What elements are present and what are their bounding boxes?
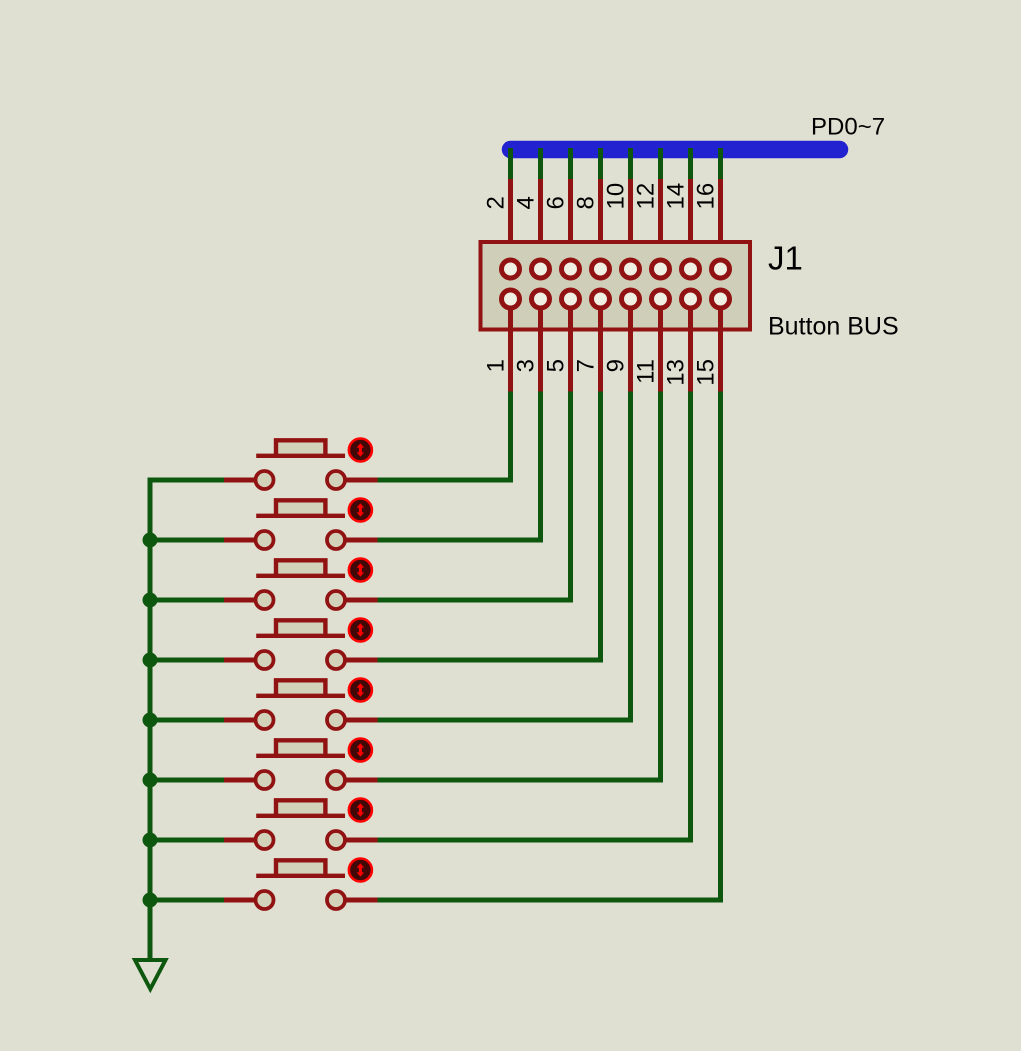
svg-text:12: 12 [633, 183, 660, 210]
push button 3 right pin [336, 598, 378, 603]
svg-text:16: 16 [693, 183, 720, 210]
wire bus entry to pin 4 [538, 148, 543, 179]
net label PD0~7 [811, 114, 885, 141]
push button 6 right pin [336, 778, 378, 783]
pin number 4 [513, 196, 540, 209]
svg-text:9: 9 [603, 359, 630, 372]
wire left rail vertical [148, 480, 153, 959]
svg-text:6: 6 [543, 196, 570, 209]
push button 8 cap [276, 860, 325, 876]
pin number 2 [483, 196, 510, 209]
svg-text:10: 10 [603, 183, 630, 210]
pin 7 wire (bottom) [598, 299, 603, 392]
push button 6 actuator [349, 739, 372, 762]
wire rail to button 4 [150, 658, 224, 663]
J1 pin 9 pad [622, 290, 640, 308]
pin 9 wire (bottom) [628, 299, 633, 392]
push button 5 left contact [256, 711, 274, 729]
J1 pin 12 pad [652, 260, 670, 278]
pin number 7 [573, 359, 600, 372]
push button 3 cap [276, 560, 325, 576]
wire rail to button 2 [150, 538, 224, 543]
push button 4 right pin [336, 658, 378, 663]
svg-text:J1: J1 [768, 240, 803, 277]
wire bus entry to pin 6 [568, 148, 573, 179]
connector J1 body [481, 242, 751, 330]
push button 2 base bar [256, 514, 345, 518]
junction rail / button 3 [143, 593, 158, 608]
pin number 5 [543, 359, 570, 372]
push button 1 actuator [349, 439, 372, 462]
pin 10 wire (top) [628, 179, 633, 269]
pin 12 wire (top) [658, 179, 663, 269]
push button 7 left contact [256, 831, 274, 849]
wire bus entry to pin 10 [628, 148, 633, 179]
push button 5 cap [276, 680, 325, 696]
push button 4 base bar [256, 634, 345, 638]
wire rail to button 3 [150, 598, 224, 603]
push button 2 right pin [336, 538, 378, 543]
push button 6 left contact [256, 771, 274, 789]
push button 7 right contact [327, 831, 345, 849]
J1 pin 1 pad [502, 290, 520, 308]
push button 3 right contact [327, 591, 345, 609]
svg-text:8: 8 [573, 196, 600, 209]
push button 4 actuator [349, 619, 372, 642]
push button 8 base bar [256, 874, 345, 878]
junction rail / button 4 [143, 653, 158, 668]
pin number 16 [693, 183, 720, 210]
pin 14 wire (top) [688, 179, 693, 269]
bus PD0~7 [511, 141, 840, 159]
push button 7 right pin [336, 838, 378, 843]
push button 5 right pin [336, 718, 378, 723]
push button 2 cap [276, 500, 325, 516]
connector value label Button BUS [768, 313, 899, 341]
push button 8 actuator [349, 859, 372, 882]
push button 1 right pin [336, 478, 378, 483]
pin number 8 [573, 196, 600, 209]
push button 5 left pin [224, 718, 265, 723]
pin 15 wire (bottom) [718, 299, 723, 392]
ground [135, 960, 166, 989]
push button 6 base bar [256, 754, 345, 758]
push button 5 right contact [327, 711, 345, 729]
wire pin 1 to button 1 [378, 392, 511, 481]
svg-text:3: 3 [513, 359, 540, 372]
push button 7 left pin [224, 838, 265, 843]
wire pin 5 to button 3 [378, 392, 571, 601]
wire bus entry to pin 12 [658, 148, 663, 179]
wire pin 15 to button 8 [378, 392, 721, 901]
pin 1 wire (bottom) [508, 299, 513, 392]
J1 pin 10 pad [622, 260, 640, 278]
pin number 12 [633, 183, 660, 210]
svg-text:11: 11 [633, 359, 660, 384]
wire bus entry to pin 14 [688, 148, 693, 179]
junction rail / button 2 [143, 533, 158, 548]
pin 8 wire (top) [598, 179, 603, 269]
svg-text:7: 7 [573, 359, 600, 372]
push button 4 right contact [327, 651, 345, 669]
pin 13 wire (bottom) [688, 299, 693, 392]
pin 16 wire (top) [718, 179, 723, 269]
pin 3 wire (bottom) [538, 299, 543, 392]
pin number 10 [603, 183, 630, 210]
push button 3 base bar [256, 574, 345, 578]
junction rail / button 8 [143, 893, 158, 908]
push button 5 actuator [349, 679, 372, 702]
pin 6 wire (top) [568, 179, 573, 269]
J1 pin 16 pad [712, 260, 730, 278]
J1 pin 4 pad [532, 260, 550, 278]
svg-text:4: 4 [513, 196, 540, 209]
push button 3 actuator [349, 559, 372, 582]
pin number 9 [603, 359, 630, 372]
wire pin 7 to button 4 [378, 392, 601, 661]
wire pin 11 to button 6 [378, 392, 661, 781]
wire bus entry to pin 8 [598, 148, 603, 179]
push button 1 left contact [256, 471, 274, 489]
pin number 11 [633, 359, 660, 384]
wire pin 9 to button 5 [378, 392, 631, 721]
push button 2 right contact [327, 531, 345, 549]
pin 4 wire (top) [538, 179, 543, 269]
J1 pin 3 pad [532, 290, 550, 308]
push button 3 left pin [224, 598, 265, 603]
pin number 3 [513, 359, 540, 372]
J1 pin 11 pad [652, 290, 670, 308]
pin number 1 [483, 359, 510, 372]
J1 pin 15 pad [712, 290, 730, 308]
push button 1 cap [276, 440, 325, 456]
wire pin 3 to button 2 [378, 392, 541, 541]
push button 7 actuator [349, 799, 372, 822]
wire rail to button 1 [148, 478, 225, 483]
push button 2 left pin [224, 538, 265, 543]
wire rail to button 6 [150, 778, 224, 783]
svg-text:5: 5 [543, 359, 570, 372]
J1 pin 13 pad [682, 290, 700, 308]
svg-text:1: 1 [483, 359, 510, 372]
pin number 14 [663, 183, 690, 210]
push button 2 left contact [256, 531, 274, 549]
push button 6 left pin [224, 778, 265, 783]
push button 3 left contact [256, 591, 274, 609]
wire rail to button 5 [150, 718, 224, 723]
pin number 13 [663, 359, 690, 386]
junction rail / button 6 [143, 773, 158, 788]
push button 1 right contact [327, 471, 345, 489]
pin number 15 [693, 359, 720, 386]
push button 6 cap [276, 740, 325, 756]
J1 pin 6 pad [562, 260, 580, 278]
pin 2 wire (top) [508, 179, 513, 269]
svg-text:14: 14 [663, 183, 690, 210]
push button 8 right pin [336, 898, 378, 903]
push button 1 base bar [256, 454, 345, 458]
push button 6 right contact [327, 771, 345, 789]
push button 8 left pin [224, 898, 265, 903]
svg-text:15: 15 [693, 359, 720, 386]
push button 7 cap [276, 800, 325, 816]
wire rail to button 7 [150, 838, 224, 843]
svg-text:Button BUS: Button BUS [768, 313, 899, 341]
J1 pin 8 pad [592, 260, 610, 278]
pin number 6 [543, 196, 570, 209]
pin 11 wire (bottom) [658, 299, 663, 392]
J1 pin 2 pad [502, 260, 520, 278]
junction rail / button 7 [143, 833, 158, 848]
pin 5 wire (bottom) [568, 299, 573, 392]
svg-text:13: 13 [663, 359, 690, 386]
push button 7 base bar [256, 814, 345, 818]
svg-text:PD0~7: PD0~7 [811, 114, 885, 141]
wire bus entry to pin 2 [508, 148, 513, 179]
J1 pin 14 pad [682, 260, 700, 278]
wire bus entry to pin 16 [718, 148, 723, 179]
push button 5 base bar [256, 694, 345, 698]
push button 1 left pin [224, 478, 265, 483]
svg-text:2: 2 [483, 196, 510, 209]
push button 4 left contact [256, 651, 274, 669]
junction rail / button 5 [143, 713, 158, 728]
connector reference label J1 [768, 240, 803, 277]
wire pin 13 to button 7 [378, 392, 691, 841]
push button 2 actuator [349, 499, 372, 522]
push button 8 left contact [256, 891, 274, 909]
J1 pin 5 pad [562, 290, 580, 308]
push button 8 right contact [327, 891, 345, 909]
J1 pin 7 pad [592, 290, 610, 308]
push button 4 cap [276, 620, 325, 636]
wire rail to button 8 [150, 898, 224, 903]
push button 4 left pin [224, 658, 265, 663]
